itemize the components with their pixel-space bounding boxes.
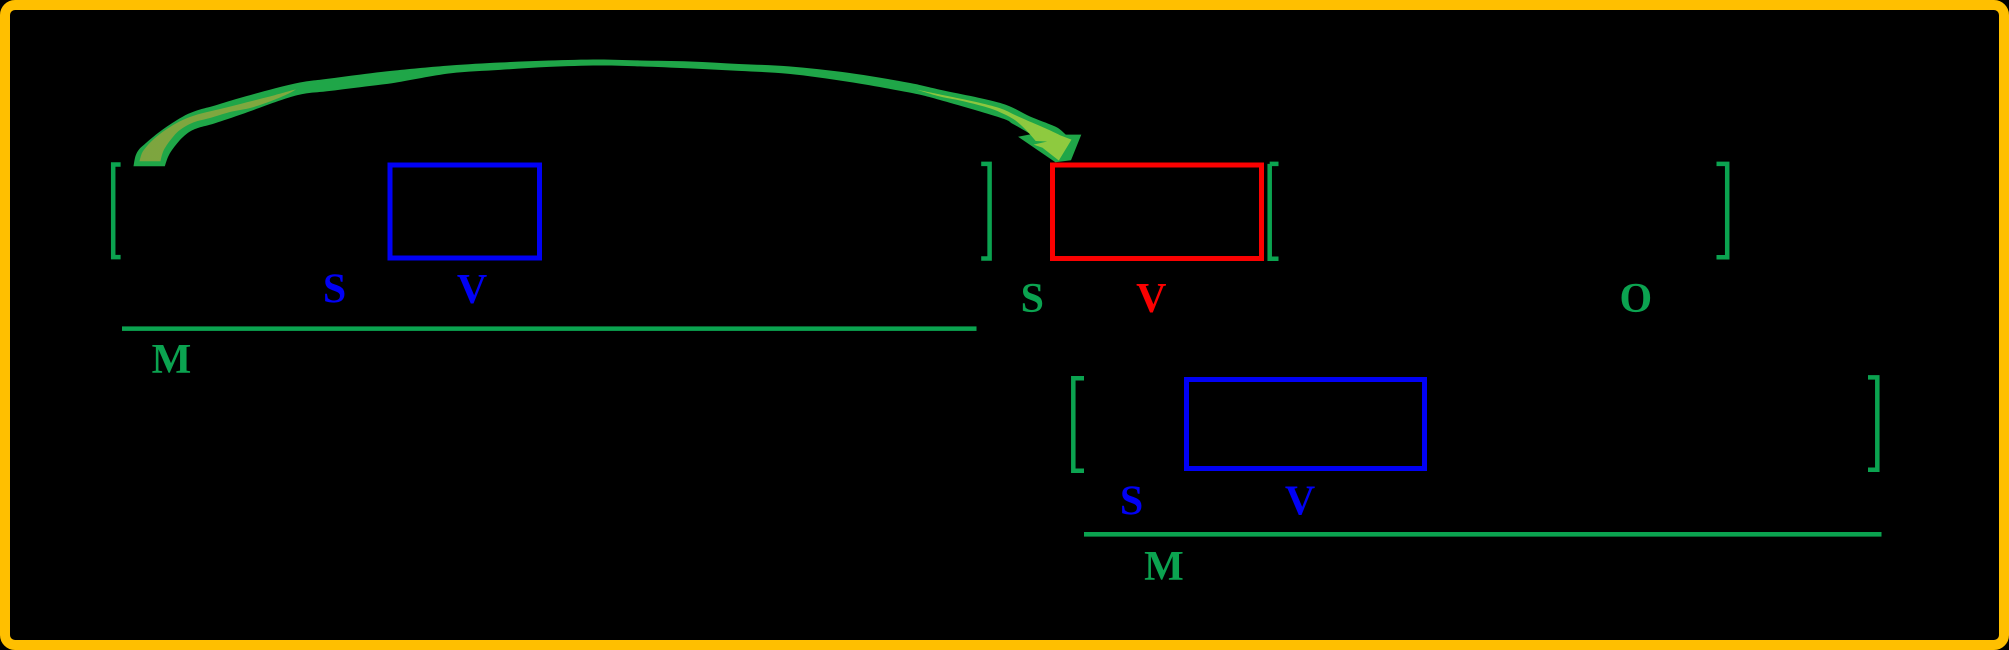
arrow swoosh dark outline bbox=[134, 60, 1082, 167]
arrow swoosh lime tail bbox=[140, 89, 297, 161]
underline M1 bbox=[122, 326, 977, 331]
svg-text:M: M bbox=[1144, 544, 1184, 590]
box V1 blue bbox=[390, 165, 540, 258]
box V2 red bbox=[1053, 165, 1262, 259]
bracket open row1 clause2 bbox=[1270, 164, 1279, 259]
arrow swoosh lime streak and head bbox=[916, 90, 1072, 161]
bracket close row1 clause1 bbox=[981, 164, 989, 259]
svg-text:V: V bbox=[457, 267, 487, 313]
bracket open row2 bbox=[1073, 378, 1084, 471]
box V3 blue bbox=[1187, 380, 1425, 469]
svg-text:V: V bbox=[1136, 276, 1166, 322]
svg-text:S: S bbox=[323, 267, 346, 313]
svg-text:O: O bbox=[1619, 276, 1652, 322]
svg-text:V: V bbox=[1285, 479, 1315, 525]
svg-text:S: S bbox=[1021, 276, 1044, 322]
bracket close row2 bbox=[1868, 377, 1877, 469]
svg-text:M: M bbox=[152, 337, 192, 383]
bracket close row1 clause2 bbox=[1717, 164, 1728, 257]
underline M2 bbox=[1084, 532, 1882, 537]
bracket open row1 clause1 bbox=[113, 165, 120, 258]
svg-text:S: S bbox=[1120, 479, 1143, 525]
